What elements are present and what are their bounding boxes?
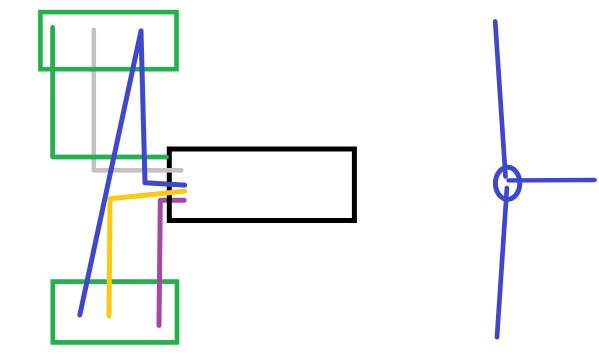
wire purple (elbow: right arm and down leg into bottom box): [159, 200, 184, 325]
wire yellow (up from bottom box, bend, then right to black box): [109, 191, 185, 316]
turbine lower blade (blue line to bottom): [497, 188, 507, 337]
green rectangle B2 (bottom box): [53, 282, 177, 343]
turbine upper blade (blue line from top): [495, 22, 505, 177]
wire blue elbow (apex down then right to black box): [141, 31, 185, 185]
wire green (L bracket: down from top box then right to black box): [53, 27, 167, 157]
wire blue diagonal (from bottom box up to apex): [80, 31, 141, 315]
turbine hub (blue ellipse): [495, 167, 519, 199]
black rectangle B3 (middle box): [169, 149, 354, 221]
wire gray (down then right, crossing black box edge): [94, 30, 182, 170]
turbine right blade (horizontal blue line): [509, 178, 595, 183]
green rectangle B1 (top box): [40, 12, 176, 69]
